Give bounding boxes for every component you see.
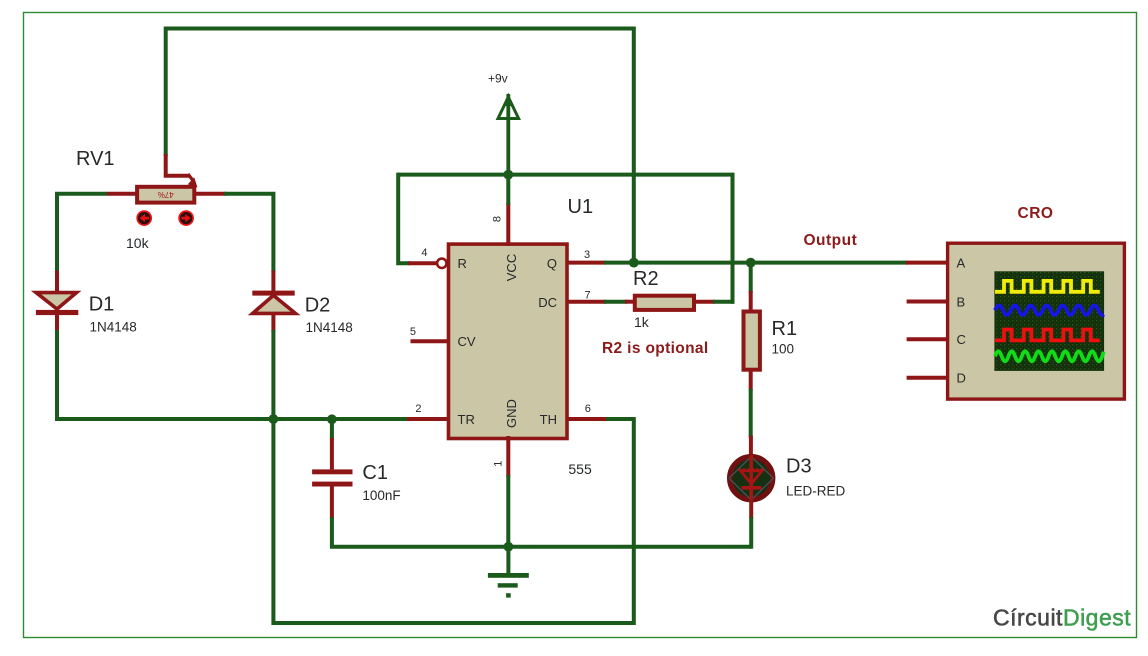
ground symbol <box>488 547 529 598</box>
svg-text:TH: TH <box>540 412 557 427</box>
wire: pin 1 to ground rail <box>506 475 510 547</box>
waveform yellow square <box>995 281 1100 292</box>
svg-text:100: 100 <box>772 342 795 357</box>
svg-text:100nF: 100nF <box>362 488 400 503</box>
svg-text:D1: D1 <box>89 294 115 316</box>
svg-text:CírcuitDigest: CírcuitDigest <box>993 605 1131 631</box>
svg-text:LED-RED: LED-RED <box>786 484 846 499</box>
svg-text:8: 8 <box>492 216 504 222</box>
wire: RV1 left leg down to D1 <box>57 194 107 273</box>
svg-text:1N4148: 1N4148 <box>90 320 137 335</box>
svg-text:R2 is optional: R2 is optional <box>602 340 709 357</box>
wire: RV1 right leg down to D2 <box>224 194 273 273</box>
svg-text:2: 2 <box>415 403 421 415</box>
diode D1 <box>36 293 78 332</box>
wire: green segment to R2 <box>604 300 627 304</box>
svg-text:U1: U1 <box>568 196 594 218</box>
svg-text:C1: C1 <box>362 462 388 484</box>
wire: red stub to pin 2 <box>407 417 448 421</box>
svg-text:4: 4 <box>421 247 427 259</box>
wire: pin 1 GND stub <box>506 436 510 477</box>
wire: junction down to R1 <box>749 263 753 293</box>
svg-text:R2: R2 <box>633 268 659 290</box>
svg-text:GND: GND <box>504 399 519 428</box>
wire: C1 bottom to ground rail to LED bottom <box>332 517 751 547</box>
svg-text:CRO: CRO <box>1018 205 1054 222</box>
wire: R2 right to loop rail <box>713 300 735 304</box>
pin 4 inverting circle <box>437 259 446 268</box>
node: R1 branch junction <box>746 258 756 268</box>
svg-text:A: A <box>957 256 966 271</box>
wire: LED cathode red stub <box>749 499 753 519</box>
capacitor C1 <box>312 438 352 519</box>
wire: Q output rail to CRO <box>604 261 908 265</box>
CRO pin B stub <box>907 300 946 304</box>
wire: pin 7 DC stub <box>567 300 606 304</box>
CRO screen <box>994 271 1104 371</box>
wire: red stub to pin 6 <box>567 417 606 421</box>
svg-text:C: C <box>957 332 966 347</box>
wire: pin 5 stub <box>411 339 449 343</box>
resistor R1 <box>744 291 760 391</box>
node: C1 tap junction <box>327 414 337 424</box>
svg-text:CV: CV <box>458 334 476 349</box>
wire: pin 8 green to rail <box>506 175 510 205</box>
waveform green sine <box>995 351 1104 361</box>
svg-text:Q: Q <box>547 256 557 271</box>
svg-text:D2: D2 <box>305 295 331 317</box>
node: VCC junction <box>503 170 513 180</box>
RV1 adjust screw right <box>179 211 193 225</box>
wire: loop down to pin 4 <box>398 173 410 264</box>
wire: top bus from RV1 wiper to Q-output column <box>166 29 634 263</box>
svg-text:TR: TR <box>458 412 475 427</box>
svg-text:Output: Output <box>804 232 858 249</box>
svg-text:10k: 10k <box>126 235 150 251</box>
LED D3 <box>729 455 773 500</box>
diode D2 <box>252 291 295 332</box>
svg-text:1: 1 <box>492 461 504 467</box>
svg-text:47%: 47% <box>158 190 174 199</box>
svg-text:DC: DC <box>538 295 557 310</box>
CRO pin C stub <box>907 337 946 341</box>
CircuitDigest logo <box>993 605 1131 631</box>
svg-text:1N4148: 1N4148 <box>306 320 353 335</box>
IC U1 555 body <box>449 244 568 438</box>
svg-text:R: R <box>458 256 467 271</box>
wire: TR/TH feedback loop bottom <box>273 419 633 623</box>
RV1 adjust screw left <box>137 211 151 225</box>
svg-text:555: 555 <box>568 461 592 477</box>
svg-text:D: D <box>957 371 966 386</box>
node: ground junction <box>504 542 514 552</box>
wire: R1 to LED <box>749 389 753 438</box>
svg-text:+9v: +9v <box>488 72 508 86</box>
wire: red stub into D2 cathode <box>271 271 275 292</box>
svg-text:VCC: VCC <box>504 254 519 281</box>
svg-text:6: 6 <box>585 403 591 415</box>
node: Q column junction <box>629 258 639 268</box>
power +9v symbol <box>498 93 519 177</box>
waveform red square <box>995 330 1100 341</box>
wire: red stub into LED <box>749 436 753 459</box>
wire: down to C1 <box>330 419 334 440</box>
wire: D2 anode down to TR rail <box>271 330 275 419</box>
node: TR junction <box>269 414 279 424</box>
svg-text:5: 5 <box>410 326 416 338</box>
svg-text:D3: D3 <box>786 456 812 478</box>
waveform blue sine <box>995 305 1104 315</box>
CRO pin D stub <box>907 376 946 380</box>
wire: VCC/R loop rail <box>398 175 732 304</box>
wire: wiper vertical green <box>164 27 168 157</box>
potentiometer RV1 wiper arm <box>166 154 198 188</box>
wire: red stub into CRO pin A <box>906 261 946 265</box>
wire: red stub into D1 anode <box>55 271 59 293</box>
svg-text:B: B <box>957 295 966 310</box>
wire: LED down to ground rail <box>749 517 753 549</box>
wire: D1 cathode down and along bottom to TR <box>57 330 409 419</box>
svg-text:R1: R1 <box>772 318 798 340</box>
wire: pin 3 Q output stub <box>567 261 606 265</box>
wire: red stub to pin 4 <box>408 261 437 265</box>
potentiometer RV1 body <box>107 187 226 203</box>
wire: pin 8 stub <box>506 203 510 246</box>
resistor R2 <box>625 296 715 310</box>
svg-text:RV1: RV1 <box>76 148 115 170</box>
svg-text:1k: 1k <box>634 314 650 330</box>
svg-text:3: 3 <box>584 249 590 261</box>
CRO oscilloscope body <box>948 243 1125 399</box>
